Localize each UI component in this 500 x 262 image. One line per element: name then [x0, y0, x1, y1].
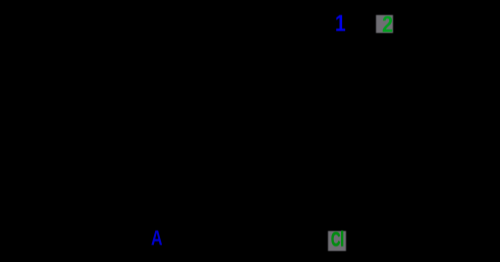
highlight box for compound 2	[376, 15, 393, 33]
highlight box for Cl	[328, 231, 346, 251]
chlorine label Cl (green)	[331, 230, 344, 250]
label A (blue)	[151, 228, 163, 249]
compound number 2 (green)	[382, 13, 393, 36]
compound number 1 (blue)	[335, 12, 346, 35]
